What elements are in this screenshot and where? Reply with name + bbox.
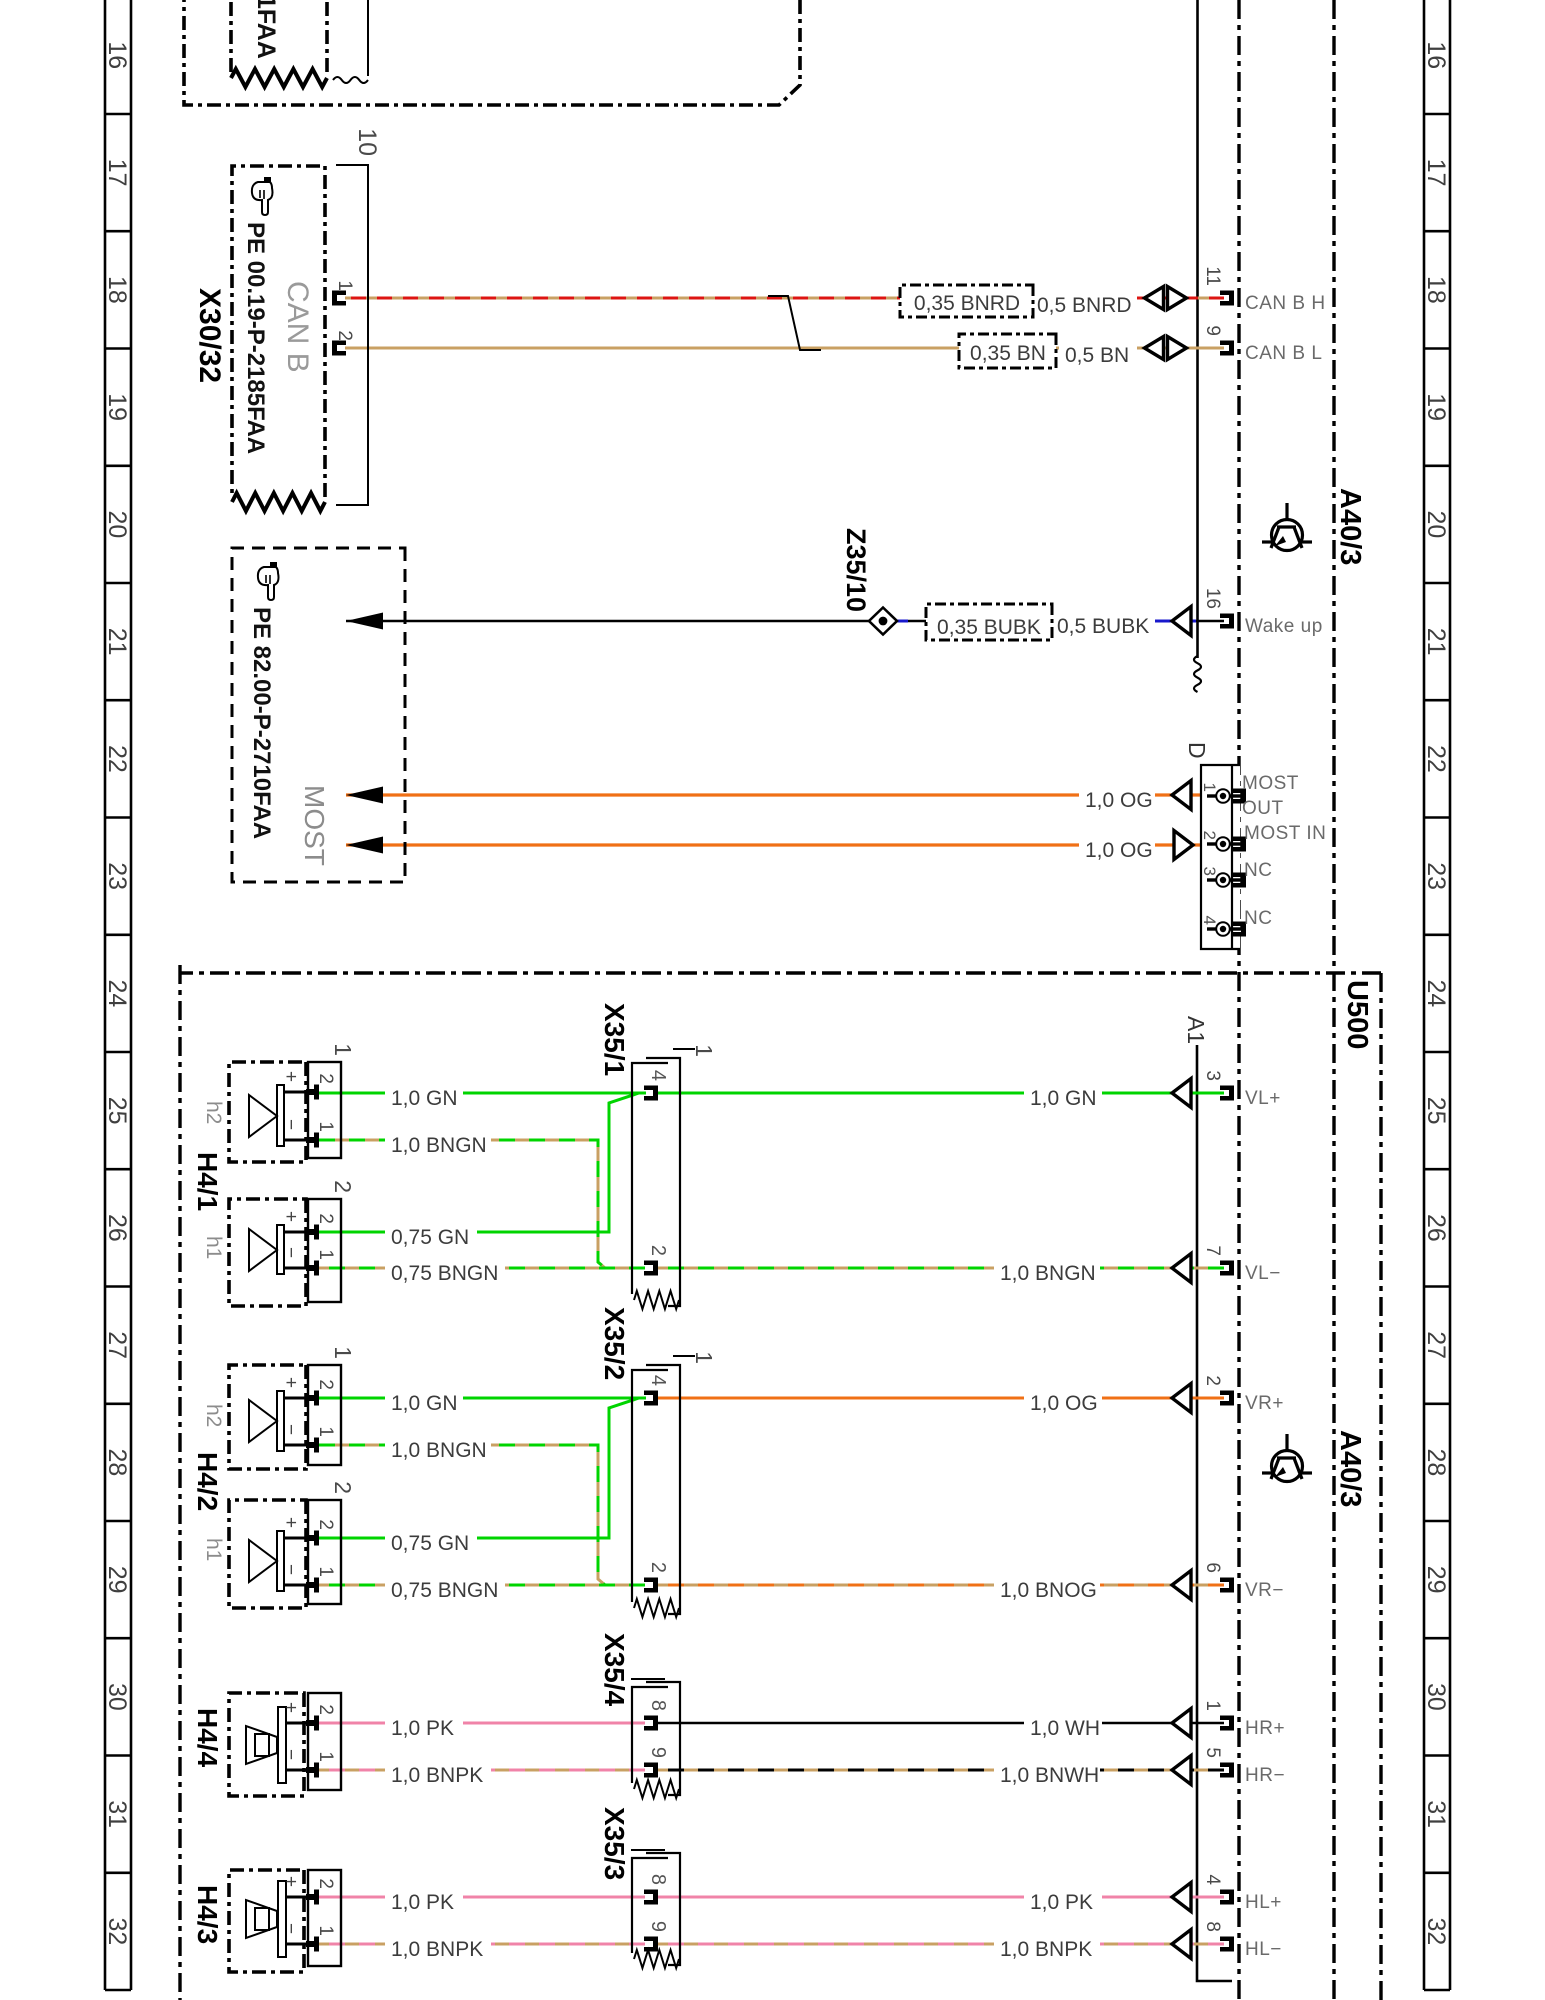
svg-text:1: 1 [1200,783,1219,792]
svg-text:1: 1 [315,1751,336,1762]
svg-text:26: 26 [1422,1214,1450,1242]
wire spec label 1,0 OG (MOST OUT) [1079,782,1155,813]
pin 8 (HL-) on control unit rail [1220,1937,1234,1952]
tweeter symbol [278,1881,286,1957]
connector X35/4 [646,1682,680,1795]
svg-text:Z35/10: Z35/10 [841,528,871,612]
direction triangle [1172,1930,1191,1959]
see-PE hand icon [258,562,279,600]
svg-text:30: 30 [103,1683,131,1711]
svg-text:18: 18 [103,276,131,304]
svg-text:2: 2 [1202,1375,1223,1386]
internal connector rail (solid line, left section) [1196,0,1199,658]
svg-text:1,0 BNGN: 1,0 BNGN [1000,1262,1096,1285]
pin 1 of h2 of H4/2 [284,1444,312,1447]
svg-text:29: 29 [1422,1566,1450,1594]
wire 0,75 BNGN h1 of H4/1 to X35/1 pin2 [319,1267,645,1270]
pin 2 of h1 of H4/2 [284,1537,312,1540]
direction triangle [1172,1756,1191,1785]
svg-text:4: 4 [647,1375,669,1386]
wire spec label 0,75 GN (lower) [385,1219,477,1250]
svg-text:1,0 BNOG: 1,0 BNOG [1000,1579,1097,1602]
svg-text:1,0 BNPK: 1,0 BNPK [391,1764,483,1787]
connector X35/3 [646,1853,680,1965]
wire CAN B L (0,35/0,5 BN) vertical at x=348 [345,347,1224,350]
svg-text:17: 17 [1422,159,1450,187]
svg-text:1: 1 [1202,1700,1223,1711]
arrow into MOST box (wake-up) [346,613,383,630]
wire VL+ 1,0 GN (A1 pin3 to X35/1 pin4) [656,1092,1224,1095]
svg-text:CAN B: CAN B [281,281,314,373]
speaker symbol h1 of H4/1 [277,1225,284,1274]
svg-text:17: 17 [103,159,131,187]
svg-text:22: 22 [103,745,131,773]
pin 1 of tweeter [286,1943,312,1946]
inline connector symbol CAN B H [1168,287,1187,310]
svg-text:NC: NC [1244,908,1272,929]
tweeter box [229,1693,304,1796]
svg-text:1,0 OG: 1,0 OG [1085,839,1153,862]
svg-text:10: 10 [353,128,381,156]
svg-text:1: 1 [315,1426,336,1437]
pin 8 of X35/4 [644,1716,658,1731]
wire Wake up (0,35/0,5 BUBK) at x=621 [896,620,1224,622]
svg-text:0,75 GN: 0,75 GN [391,1532,469,1555]
svg-text:4: 4 [647,1070,669,1081]
svg-text:5: 5 [1202,1747,1223,1758]
svg-text:−: − [280,1247,301,1258]
wire 1,0 GN h2 of H4/2 to X35/2 pin4 [319,1397,645,1400]
svg-text:21: 21 [103,628,131,656]
partial connector box with PE ...1FAA [231,0,327,72]
svg-text:+: + [280,1211,301,1222]
svg-text:2: 2 [315,1704,336,1715]
svg-text:21: 21 [1422,628,1450,656]
svg-text:+: + [280,1377,301,1388]
svg-text:HL−: HL− [1245,1939,1282,1960]
wire 0,75 GN h1 of H4/1 (jog to X35/1 pin4) [319,1093,646,1232]
direction triangle MOST OUT [1172,781,1191,810]
svg-text:0,35 BUBK: 0,35 BUBK [937,616,1041,639]
svg-text:A1: A1 [1183,1016,1209,1044]
svg-text:MOST: MOST [299,785,330,866]
svg-text:Wake up: Wake up [1245,616,1323,637]
svg-text:2: 2 [1200,831,1219,840]
svg-text:X35/1: X35/1 [599,1003,630,1076]
svg-text:0,75 BNGN: 0,75 BNGN [391,1262,498,1285]
wire 1,0 BNPK H4/4 to X35/4 pin9 [319,1769,645,1772]
svg-text:8: 8 [647,1700,669,1711]
svg-text:24: 24 [103,979,131,1007]
connector shell of h2 of H4/2 [308,1365,341,1465]
control unit A40/3 outer edge (dash-dot) [1332,0,1335,2000]
svg-text:0,35 BN: 0,35 BN [970,342,1046,365]
wire 0,75 BNGN h1 of H4/2 to X35/2 pin2 [319,1584,645,1587]
svg-text:1,0 OG: 1,0 OG [1030,1392,1098,1415]
connector shell [308,1870,341,1966]
direction triangle [1172,1571,1191,1600]
svg-text:20: 20 [1422,510,1450,538]
svg-text:1,0 GN: 1,0 GN [391,1087,458,1110]
svg-text:MOST IN: MOST IN [1244,823,1326,844]
svg-text:A40/3: A40/3 [1334,488,1366,565]
svg-text:H4/1: H4/1 [192,1152,223,1211]
connector X35/2 [646,1365,680,1614]
direction triangle [1172,1883,1191,1912]
speaker symbol h2 of H4/1 [277,1085,284,1146]
option symbol (circle with arrow) right [1262,1434,1312,1482]
svg-text:1,0 GN: 1,0 GN [1030,1087,1097,1110]
svg-text:2: 2 [647,1562,669,1573]
pin 2 of X35/1 [644,1261,658,1276]
svg-text:2: 2 [330,1180,356,1193]
svg-text:X35/2: X35/2 [599,1307,630,1380]
svg-text:H4/4: H4/4 [192,1708,223,1768]
svg-text:28: 28 [1422,1448,1450,1476]
direction triangle [1172,1254,1191,1283]
connector shell of h1 of H4/1 [308,1199,341,1302]
svg-text:2: 2 [647,1245,669,1256]
svg-text:0,5 BN: 0,5 BN [1065,344,1129,367]
direction triangle [1172,1079,1191,1108]
svg-text:24: 24 [1422,979,1450,1007]
svg-text:CAN B L: CAN B L [1245,343,1322,364]
speaker symbol h1 of H4/2 [277,1531,284,1591]
svg-text:PE 82.00-P-2710FAA: PE 82.00-P-2710FAA [248,607,275,839]
svg-text:9: 9 [647,1921,669,1932]
pin 2 of X30/32 [332,341,346,356]
svg-text:28: 28 [103,1448,131,1476]
connector shell [308,1693,341,1790]
svg-text:−: − [280,1923,301,1934]
solder joint Z35/10 (diamond) [869,608,897,635]
wire spec label 1,0 BNGN (lower) [385,1127,491,1158]
wire spec label 1,0 OG (MOST IN) [1079,832,1155,863]
wire 1,0 BNPK H4/3 to X35/3 pin9 [319,1943,645,1946]
svg-text:20: 20 [103,510,131,538]
pin 11 (CAN B H) on control unit rail [1220,291,1234,306]
pin 1 of h1 of H4/2 [284,1584,312,1587]
svg-text:9: 9 [647,1747,669,1758]
svg-text:2: 2 [315,1073,336,1084]
svg-text:2: 2 [315,1519,336,1530]
pin 8 of X35/3 [644,1890,658,1905]
pin 1 (HR+) on control unit rail [1220,1716,1234,1731]
svg-text:16: 16 [103,41,131,69]
pin 1 of X30/32 [332,291,346,306]
svg-text:VL−: VL− [1245,1263,1281,1284]
pin 4 of X35/2 [644,1391,658,1406]
wire 1,0 PK H4/3 to X35/3 pin8 [319,1896,645,1899]
pin 7 (VL-) on control unit rail [1220,1261,1234,1276]
MOST bus box (PE 82.00-P-2710FAA) [232,548,405,882]
wire spec label 0,5 BNRD [1031,287,1137,318]
pin 2 of h1 of H4/1 [284,1231,312,1234]
svg-text:3: 3 [1202,1070,1223,1081]
wire spec label 1,0 OG (upper) [1024,1385,1102,1416]
wire spec box 0,35 BNRD [900,285,1033,317]
svg-text:1: 1 [315,1249,336,1260]
svg-text:+: + [280,1517,301,1528]
svg-text:1: 1 [691,1351,717,1364]
wire VL- 1,0 BNGN (A1 pin7 to X35/1 pin2) [656,1267,1224,1270]
wire spec label 0,75 GN (lower) [385,1525,477,1556]
wire VR- 1,0 BNOG (A1 pin6 to X35/2 pin2) [656,1584,1224,1587]
svg-text:11: 11 [1202,266,1223,286]
pin 2 of X35/2 [644,1578,658,1593]
pin 9 of X35/3 [644,1937,658,1952]
pin 6 (VR-) on control unit rail [1220,1578,1234,1593]
svg-text:−: − [280,1564,301,1575]
svg-text:32: 32 [1422,1917,1450,1945]
wire HL- 1,0 BNPK (A1 pin8 to X35/3 pin9) [656,1943,1224,1946]
grid ruler bottom [105,0,131,1990]
connector D contact 3 [1229,878,1242,881]
direction triangle MOST IN (points up) [1174,831,1193,860]
svg-text:HR−: HR− [1245,1765,1285,1786]
amplifier rail A1 (solid line) [1197,1045,1232,1981]
wire 0,75 GN h1 of H4/2 (jog to X35/2 pin4) [319,1398,646,1538]
pin 5 (HR-) on control unit rail [1220,1763,1234,1778]
svg-text:25: 25 [1422,1097,1450,1125]
wire spec label 1,0 BNWH (upper) [994,1757,1100,1788]
pin 4 (HL+) on control unit rail [1220,1890,1234,1905]
svg-text:8: 8 [647,1874,669,1885]
wire spec label 0,5 BUBK [1051,608,1155,639]
pin 2 of tweeter [286,1896,312,1899]
svg-text:+: + [280,1071,301,1082]
wire 1,0 GN h2 of H4/1 to X35/1 pin4 [319,1092,645,1095]
wire spec label 1,0 GN (upper) [1024,1080,1102,1111]
wire spec label 1,0 GN (lower) [385,1385,463,1416]
svg-text:2: 2 [315,1379,336,1390]
svg-text:26: 26 [103,1214,131,1242]
wire 1,0 BNGN h2 of H4/1 (jog to X35/1 pin2) [319,1140,605,1268]
svg-text:1,0 BNWH: 1,0 BNWH [1000,1764,1099,1787]
wire 1,0 PK H4/4 to X35/4 pin8 [319,1722,645,1725]
svg-text:VL+: VL+ [1245,1088,1281,1109]
svg-text:VR−: VR− [1245,1580,1284,1601]
svg-text:6: 6 [1202,1562,1223,1573]
svg-text:CAN B H: CAN B H [1245,293,1326,314]
svg-text:1,0 GN: 1,0 GN [391,1392,458,1415]
svg-text:H4/2: H4/2 [192,1452,223,1511]
wire HR+ 1,0 WH (A1 pin1 to X35/4 pin8) [656,1722,1224,1725]
svg-text:X35/4: X35/4 [599,1633,630,1707]
svg-text:27: 27 [1422,1331,1450,1359]
connector D (MOST socket strip) [1201,765,1240,949]
bracket remnant with torn end [367,0,369,76]
loudspeaker h1 of H4/1 box [229,1199,306,1306]
connector D contact 1 [1229,794,1242,797]
loudspeaker h1 of H4/2 box [229,1500,306,1608]
svg-text:0,35 BNRD: 0,35 BNRD [914,292,1020,315]
wire spec label 1,0 WH (upper) [1024,1710,1102,1741]
inline connector symbol CAN B L [1168,337,1187,360]
option symbol (circle with arrow) left [1262,503,1312,551]
svg-text:1FAA: 1FAA [252,0,280,59]
sound amplifier U500 box (dash-dot) [180,965,1381,2000]
svg-text:25: 25 [103,1097,131,1125]
tweeter box [229,1870,304,1972]
svg-text:32: 32 [103,1917,131,1945]
svg-text:19: 19 [1422,393,1450,421]
svg-text:X30/32: X30/32 [193,288,226,383]
see-PE hand icon [252,177,273,215]
svg-text:7: 7 [1202,1245,1223,1256]
arrow into MOST box (MOST OUT) [346,787,383,804]
wire HL+ 1,0 PK (A1 pin4 to X35/3 pin8) [656,1896,1224,1899]
svg-text:1,0 BNPK: 1,0 BNPK [1000,1938,1092,1961]
svg-text:h2: h2 [202,1404,225,1427]
svg-text:29: 29 [103,1566,131,1594]
svg-text:1: 1 [691,1044,717,1057]
svg-text:1,0 OG: 1,0 OG [1085,789,1153,812]
svg-text:OUT: OUT [1242,798,1284,819]
svg-text:−: − [280,1119,301,1130]
pin 2 of h2 of H4/2 [284,1397,312,1400]
svg-text:0,5 BNRD: 0,5 BNRD [1037,294,1132,317]
svg-text:h1: h1 [202,1538,225,1561]
svg-text:H4/3: H4/3 [192,1885,223,1944]
svg-text:31: 31 [1422,1800,1450,1828]
loudspeaker h2 of H4/2 box [229,1365,306,1469]
arrow into MOST box (MOST IN) [346,837,383,854]
wire spec label 1,0 BNPK (upper) [994,1931,1100,1962]
wire HR- 1,0 BNWH (A1 pin5 to X35/4 pin9) [656,1769,1224,1772]
svg-text:1: 1 [315,1566,336,1577]
svg-text:0,75 GN: 0,75 GN [391,1226,469,1249]
svg-text:1,0 BNGN: 1,0 BNGN [391,1439,487,1462]
svg-text:16: 16 [1202,588,1223,609]
pin 9 of X35/4 [644,1763,658,1778]
control unit A40/3 connector edge (dash-dot) [1237,0,1240,2000]
svg-text:27: 27 [103,1331,131,1359]
pin 16 (Wake up) on control unit rail [1220,614,1234,629]
svg-text:1: 1 [315,1121,336,1132]
wire spec label 1,0 PK (lower) [385,1710,463,1741]
svg-text:30: 30 [1422,1683,1450,1711]
svg-text:1,0 PK: 1,0 PK [391,1717,454,1740]
svg-text:A40/3: A40/3 [1334,1430,1366,1507]
svg-text:4: 4 [1202,1874,1223,1885]
svg-text:2: 2 [315,1213,336,1224]
wire spec label 0,75 BNGN (lower) [385,1255,505,1286]
svg-text:NC: NC [1244,860,1272,881]
svg-text:1: 1 [334,280,355,291]
svg-text:23: 23 [103,862,131,890]
wire 1,0 BNGN h2 of H4/2 (jog to X35/2 pin2) [319,1445,605,1585]
tweeter symbol [278,1707,286,1783]
direction triangle on wake-up wire [1172,607,1191,636]
connector box X30/32 (CAN B distributor) [232,166,325,497]
pin 1 of h2 of H4/1 [284,1139,312,1142]
pin 1 of h1 of H4/1 [284,1267,312,1270]
svg-text:9: 9 [1202,325,1223,336]
pin 1 of tweeter [286,1769,312,1772]
wire spec label 1,0 BNGN (lower) [385,1432,491,1463]
svg-text:1: 1 [330,1346,356,1359]
pin 4 of X35/1 [644,1086,658,1101]
svg-text:23: 23 [1422,862,1450,890]
svg-text:1,0 WH: 1,0 WH [1030,1717,1100,1740]
svg-text:16: 16 [1422,41,1450,69]
wire spec box 0,35 BUBK [926,604,1052,640]
connector shell of h2 of H4/1 [308,1062,341,1158]
wire spec label 1,0 BNPK (lower) [385,1757,491,1788]
wire spec label 1,0 GN (lower) [385,1080,463,1111]
wire spec label 1,0 PK (lower) [385,1884,463,1915]
svg-text:+: + [280,1876,301,1887]
svg-text:2: 2 [334,330,355,341]
svg-text:4: 4 [1200,916,1219,925]
connector shell of h1 of H4/2 [308,1500,341,1604]
svg-text:18: 18 [1422,276,1450,304]
connector X35/1 [646,1058,680,1306]
svg-text:1,0 PK: 1,0 PK [391,1891,454,1914]
svg-text:HL+: HL+ [1245,1892,1282,1913]
svg-text:1,0 BNGN: 1,0 BNGN [391,1134,487,1157]
svg-text:2: 2 [330,1481,356,1494]
pin 2 (VR+) on control unit rail [1220,1391,1234,1406]
pin 3 (VL+) on control unit rail [1220,1086,1234,1101]
fiber MOST OUT (1,0 OG) at x=795 [346,793,1215,796]
speaker symbol h2 of H4/2 [277,1391,284,1451]
pin 2 of tweeter [286,1722,312,1725]
svg-text:HR+: HR+ [1245,1718,1285,1739]
direction triangle [1172,1709,1191,1738]
svg-text:VR+: VR+ [1245,1393,1284,1414]
svg-text:31: 31 [103,1800,131,1828]
wire spec label 1,0 BNOG (upper) [994,1572,1100,1603]
svg-text:8: 8 [1202,1921,1223,1932]
wire spec label 1,0 BNPK (lower) [385,1931,491,1962]
svg-text:−: − [280,1424,301,1435]
svg-text:1: 1 [315,1925,336,1936]
partial component box (cut at page edge) [184,0,800,105]
svg-text:X35/3: X35/3 [599,1807,630,1880]
svg-text:−: − [280,1749,301,1760]
connector D contact 2 [1229,842,1242,845]
wire spec label 0,5 BN [1059,337,1137,368]
svg-text:3: 3 [1200,867,1219,876]
wire spec label 0,75 BNGN (lower) [385,1572,505,1603]
svg-text:h1: h1 [202,1236,225,1259]
twisted-pair marker across CAN wires [768,296,821,350]
connector D contact 4 [1229,927,1242,930]
svg-text:PE 00.19-P-2185FAA: PE 00.19-P-2185FAA [242,222,269,454]
svg-text:19: 19 [103,393,131,421]
wire VR+ 1,0 OG (A1 pin2 to X35/2 pin4) [656,1397,1224,1400]
svg-text:0,5 BUBK: 0,5 BUBK [1057,615,1149,638]
pin 9 (CAN B L) on control unit rail [1220,341,1234,356]
svg-text:1: 1 [330,1043,356,1056]
pin 2 of h2 of H4/1 [284,1091,312,1094]
loudspeaker h2 of H4/1 box [229,1062,306,1162]
fiber MOST IN (1,0 OG) at x=845 [346,843,1215,846]
wire spec label 1,0 BNGN (upper) [994,1255,1100,1286]
svg-text:MOST: MOST [1242,773,1299,794]
svg-text:h2: h2 [202,1101,225,1124]
svg-text:1,0 PK: 1,0 PK [1030,1891,1093,1914]
direction triangle [1172,1384,1191,1413]
svg-text:1,0 BNPK: 1,0 BNPK [391,1938,483,1961]
wire spec box 0,35 BN [959,334,1056,368]
grid ruler top [1424,0,1450,1990]
svg-text:22: 22 [1422,745,1450,773]
svg-text:D: D [1184,742,1210,759]
svg-text:0,75 BNGN: 0,75 BNGN [391,1579,498,1602]
